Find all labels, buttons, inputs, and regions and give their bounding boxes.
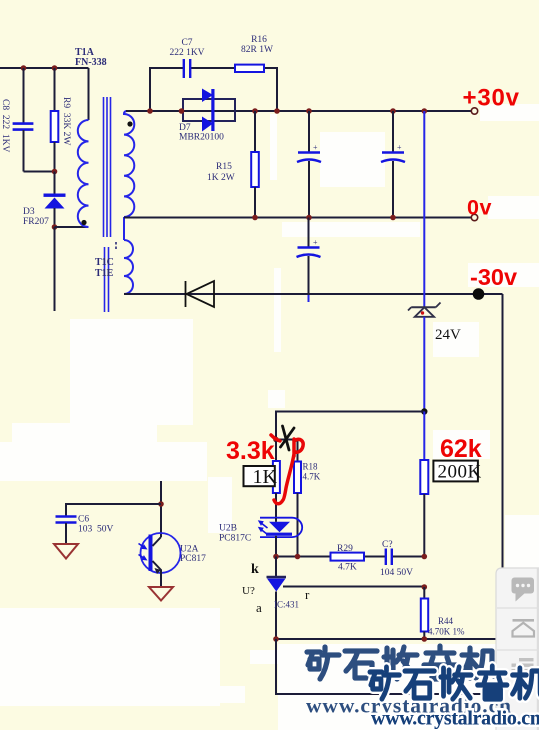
svg-text:FR207: FR207 — [23, 217, 49, 227]
wire top snubber loop — [150, 68, 277, 111]
label box 200K — [433, 461, 481, 483]
resistor R16 — [235, 35, 273, 72]
svg-text:200K: 200K — [438, 462, 482, 483]
wire anode bottom — [276, 638, 497, 640]
transformer core — [104, 97, 111, 312]
transformer secondary upper winding — [124, 111, 150, 240]
svg-text:MBR20100: MBR20100 — [179, 133, 224, 143]
wire feedback bottom — [276, 556, 424, 558]
node R18 branch — [273, 437, 279, 443]
capacitor C? 104 50V — [380, 540, 413, 578]
node junction C6 — [158, 501, 164, 507]
phototransistor U2A PC817 — [139, 533, 207, 587]
svg-text:4.70K 1%: 4.70K 1% — [428, 627, 465, 637]
svg-text:C6: C6 — [78, 515, 89, 525]
icon back-to-top — [513, 619, 535, 622]
terminal 0v — [471, 214, 477, 220]
0v rail — [124, 217, 472, 219]
resistor R29 4.7K — [331, 544, 365, 573]
svg-text:4.7K: 4.7K — [303, 472, 321, 482]
watermark back copy — [307, 646, 496, 679]
svg-text:R15: R15 — [216, 162, 232, 172]
svg-text:104 50V: 104 50V — [380, 568, 413, 578]
svg-text:R29: R29 — [337, 544, 353, 554]
transformer secondary lower winding T1C T1E — [95, 240, 133, 294]
svg-text:1K: 1K — [253, 466, 278, 488]
resistor R9 — [51, 68, 71, 172]
capacitor filter C top-right — [381, 111, 405, 218]
wire right side down — [502, 294, 504, 568]
svg-text:C?: C? — [382, 540, 393, 550]
svg-text:24V: 24V — [435, 327, 461, 343]
node divider top — [421, 408, 427, 414]
svg-text:D7: D7 — [179, 123, 191, 133]
icon comment bubble — [512, 578, 535, 594]
svg-text:1K 2W: 1K 2W — [207, 173, 235, 183]
node junctions on 0v rail — [252, 215, 258, 221]
capacitor filter C top-left — [297, 111, 321, 218]
diode D3 FR207 — [23, 172, 66, 228]
capacitor C7 — [169, 38, 204, 78]
icon list — [512, 658, 534, 672]
svg-text:PC817C: PC817C — [219, 534, 251, 544]
svg-text:r: r — [305, 587, 310, 602]
wire primary bottom — [55, 226, 89, 228]
node junction ref — [422, 584, 428, 590]
svg-text:3.3k: 3.3k — [226, 437, 275, 465]
svg-text:a: a — [256, 600, 262, 615]
optocoupler U2B PC817C LED — [219, 518, 302, 557]
zener diode 24V — [408, 303, 461, 344]
annotation red scribble — [271, 435, 303, 504]
wire zener to divider node — [423, 317, 425, 412]
rectifier diode on -30v rail — [186, 281, 215, 307]
wire bottom return — [276, 639, 500, 694]
resistor 1K (replaced) — [273, 440, 280, 519]
svg-text:k: k — [251, 562, 259, 577]
wire C6 branch — [66, 504, 161, 516]
diode D7 MBR20100 — [179, 89, 235, 143]
wire D3 down — [54, 227, 56, 311]
svg-text:www.crystalradio.cn: www.crystalradio.cn — [371, 708, 539, 730]
svg-text:0v: 0v — [467, 196, 492, 220]
svg-text:R9 33K 2W: R9 33K 2W — [61, 97, 71, 145]
svg-text:T1E: T1E — [95, 268, 114, 279]
node junction R9 — [52, 65, 58, 71]
svg-text:103 50V: 103 50V — [78, 525, 114, 535]
wire U2A collector — [160, 481, 162, 537]
node junction anode — [273, 636, 279, 642]
svg-text:U?: U? — [242, 585, 255, 597]
ground under U2A — [149, 587, 173, 601]
resistor R44 4.70K — [421, 587, 465, 639]
svg-text:62k: 62k — [440, 435, 482, 463]
node junction C8 — [21, 65, 27, 71]
capacitor C6 103 50V — [56, 515, 114, 545]
wire sampling vertical — [423, 111, 425, 307]
sidebar panel — [496, 568, 539, 730]
node junction D3 bottom / primary return — [52, 224, 58, 230]
node junctions feedback wire — [273, 554, 279, 560]
svg-text:FN-338: FN-338 — [75, 57, 107, 68]
ground under C6 — [54, 544, 78, 559]
resistor 200K — [420, 412, 428, 557]
svg-text:+30v: +30v — [463, 85, 520, 112]
svg-text:R18: R18 — [303, 462, 319, 472]
node junction D3 top — [52, 169, 58, 175]
svg-text:-30v: -30v — [470, 264, 517, 290]
svg-text:C8 222 1KV: C8 222 1KV — [0, 99, 10, 152]
node junctions on +30v rail — [147, 108, 153, 114]
terminal +30v — [471, 108, 477, 114]
svg-text:U2A: U2A — [180, 545, 199, 555]
resistor R15 — [207, 111, 259, 218]
svg-text:4.7K: 4.7K — [338, 563, 357, 573]
node -30v big dot — [473, 288, 485, 300]
shunt regulator U? IC:431 — [242, 557, 310, 640]
svg-text:PC817: PC817 — [180, 554, 206, 564]
annotation black X — [281, 426, 295, 450]
+30v rail — [126, 110, 472, 112]
svg-text:R16: R16 — [251, 35, 267, 45]
capacitor C8 — [0, 68, 55, 172]
svg-text:+: + — [397, 143, 402, 152]
primary phase dot — [81, 220, 86, 225]
wire reference — [283, 586, 424, 588]
transformer T1A primary winding — [75, 47, 107, 227]
secondary phase dot — [127, 121, 132, 126]
svg-text:D3: D3 — [23, 207, 35, 217]
capacitor filter C bottom — [297, 218, 321, 303]
wire divider top horizontal — [276, 412, 424, 440]
watermark front copy — [370, 666, 539, 699]
svg-text:IC:431: IC:431 — [274, 600, 299, 610]
svg-text:+: + — [313, 143, 318, 152]
resistor R18 4.7K — [276, 440, 321, 557]
svg-text:82R 1W: 82R 1W — [241, 45, 273, 55]
svg-text:R44: R44 — [438, 616, 454, 626]
svg-text:C7: C7 — [181, 38, 192, 48]
svg-text:T1C: T1C — [95, 257, 114, 268]
svg-text:U2B: U2B — [219, 524, 237, 534]
label box 1K — [244, 466, 278, 488]
wire top input — [0, 67, 89, 69]
svg-text:+: + — [313, 238, 318, 247]
svg-text:222 1KV: 222 1KV — [169, 48, 204, 58]
-30v rail — [124, 293, 503, 295]
